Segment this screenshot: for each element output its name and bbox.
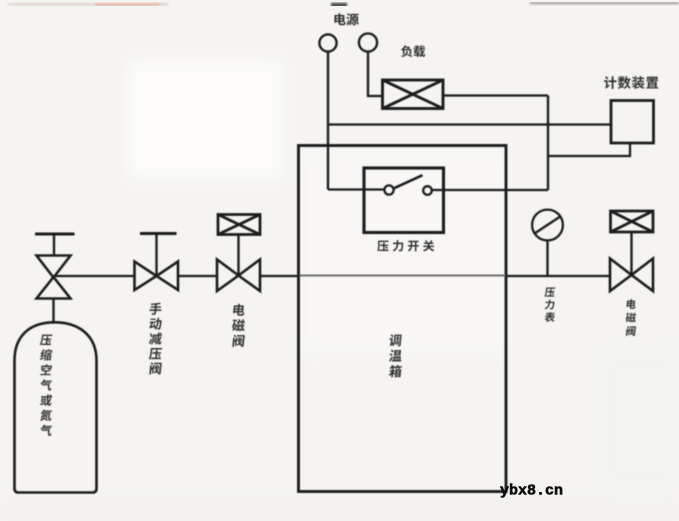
wire: right terminal down — [368, 52, 382, 97]
reducing valve left triangle — [135, 262, 157, 291]
solenoid valve left triangle — [217, 260, 239, 292]
label 负载 (load) — [401, 45, 425, 57]
pipe: inside chamber (faint) — [300, 275, 505, 277]
label 压缩空气或氮气 (compressed air or nitrogen) — [39, 335, 52, 436]
label 调温箱 (temperature chamber) — [389, 334, 403, 377]
terminal circle right (power) — [359, 33, 377, 51]
scan artifact: gray line top-right — [530, 2, 679, 4]
wire: branch to counting device bottom — [548, 143, 630, 156]
reducing valve right triangle — [157, 262, 179, 291]
switch lever — [393, 175, 423, 189]
label 电磁阀 right (solenoid valve) — [625, 299, 636, 336]
wire: vertical drop right — [547, 96, 549, 191]
svg-text:ybx8.cn: ybx8.cn — [500, 483, 563, 500]
stem valve to cylinder — [52, 299, 54, 323]
label 电源 (power) — [334, 13, 358, 25]
wire: load to right drop — [443, 94, 548, 96]
cylinder valve stem — [53, 235, 55, 256]
temperature chamber box — [299, 146, 507, 492]
pipe: reducing valve to solenoid — [178, 275, 217, 277]
pressure gauge circle — [532, 210, 563, 241]
pressure switch box — [364, 168, 444, 233]
scan artifact: dark blob — [331, 3, 347, 8]
wire: to switch right contact — [432, 189, 548, 191]
terminal circle left (power) — [319, 34, 336, 51]
reducing valve handle — [140, 232, 177, 235]
pipe: chamber to right solenoid — [506, 275, 610, 277]
reducing valve stem — [155, 235, 157, 275]
label 压力表 (pressure gauge) — [544, 288, 555, 322]
label 电磁阀 left (solenoid valve) — [232, 304, 246, 347]
scan artifact: faint pink line top-left — [8, 3, 679, 5]
label 手动减压阀 (manual reducing valve) — [149, 303, 163, 375]
right solenoid left triangle — [610, 259, 632, 292]
label 计数装置 (counting device) — [604, 76, 658, 89]
pressure gauge stem — [546, 241, 548, 277]
switch contact left — [384, 185, 393, 194]
load box with X — [383, 80, 444, 109]
wire: bus to counting device — [328, 123, 611, 125]
right solenoid stem — [630, 232, 632, 275]
label 压力开关 (pressure switch) — [377, 240, 434, 251]
cylinder valve upper triangle — [37, 256, 71, 278]
switch contact right — [423, 186, 432, 195]
pipe: cylinder valve to reducing valve — [54, 275, 135, 277]
gas cylinder body — [15, 322, 97, 492]
right solenoid right triangle — [632, 259, 654, 292]
solenoid valve coil box with X — [218, 215, 260, 235]
counting device box — [611, 101, 654, 144]
scan artifact: red segment — [95, 3, 160, 6]
wire: into pressure switch left contact — [328, 188, 384, 190]
cylinder valve handle — [35, 233, 75, 236]
right solenoid coil box with X — [611, 211, 654, 232]
pipe: solenoid to chamber — [260, 275, 299, 277]
pressure gauge needle — [535, 216, 562, 234]
solenoid valve right triangle — [239, 260, 261, 292]
solenoid valve stem — [237, 235, 239, 276]
cylinder valve lower triangle — [37, 277, 71, 299]
wire: left terminal down to switch level — [327, 52, 329, 190]
